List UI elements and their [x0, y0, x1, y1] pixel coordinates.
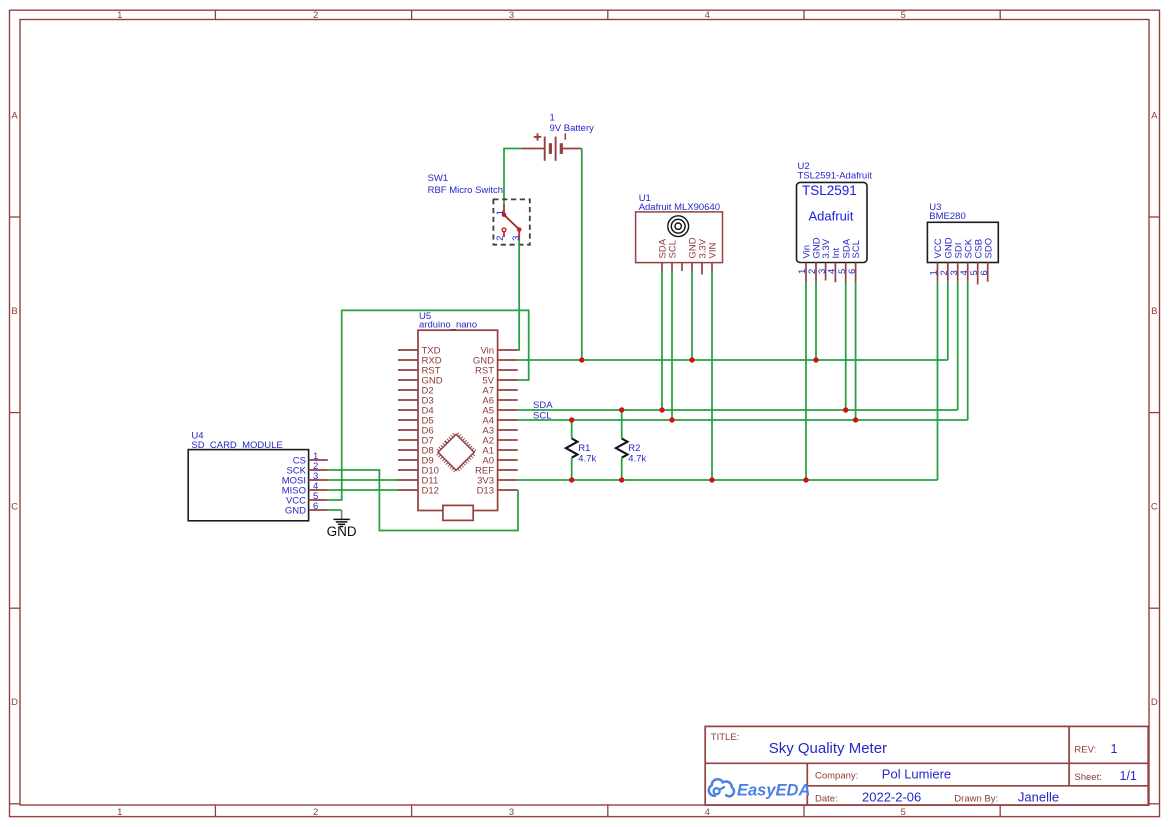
U4 SD_CARD_MODULE label — [191, 430, 282, 451]
U3 pin 2 GND — [939, 237, 954, 281]
U3 BME280 label — [929, 202, 965, 222]
U1 pin SCL — [668, 240, 679, 271]
U3 pin 3 SDI — [949, 243, 964, 282]
U3 pin 6 SDO — [979, 238, 994, 282]
svg-text:1: 1 — [495, 210, 506, 215]
U5 right pin A0 — [482, 456, 517, 467]
U5 left pin RST — [398, 366, 441, 377]
wire U2 SCL — [855, 282, 857, 420]
svg-text:D13: D13 — [477, 486, 494, 497]
U5 right pin D13 — [477, 486, 518, 497]
U2 pin 1 Vin — [797, 245, 812, 282]
wire U1 VIN — [711, 271, 713, 480]
wire U4 GND to ground — [328, 509, 342, 511]
svg-text:SW1: SW1 — [428, 173, 449, 184]
svg-text:RBF Micro Switch: RBF Micro Switch — [428, 185, 503, 196]
U1 pin NC — [681, 263, 683, 271]
title block Company — [815, 766, 951, 781]
U5 arduino_nano label — [419, 311, 477, 331]
svg-text:B: B — [1151, 306, 1157, 317]
ground — [327, 510, 357, 539]
U5 right pin A1 — [482, 446, 517, 457]
U4 SD_CARD_MODULE body — [188, 450, 308, 521]
U2 pin 4 Int — [827, 248, 842, 283]
U5 left pin D6 — [398, 426, 434, 437]
svg-text:Sheet:: Sheet: — [1074, 772, 1101, 783]
battery BT1 symbol — [522, 133, 582, 161]
svg-text:EasyEDA: EasyEDA — [737, 781, 810, 799]
title block TITLE — [711, 732, 887, 757]
U2 text TSL2591 — [802, 183, 857, 198]
U2 pin 6 SCL — [847, 240, 862, 282]
wire 3V3 net horizontal — [518, 479, 938, 481]
wire U3 VCC — [937, 282, 939, 480]
U5 left pin D9 — [398, 456, 434, 467]
U1 body — [636, 212, 723, 263]
wire battery+ to switch — [504, 149, 522, 206]
wire U3 SDI — [957, 282, 959, 410]
svg-text:1: 1 — [1111, 742, 1118, 756]
U5 left pin D12 — [398, 486, 439, 497]
svg-text:SCL: SCL — [668, 240, 679, 258]
U5 left pin D10 — [398, 466, 439, 477]
resistor R1 — [566, 420, 597, 480]
svg-text:B: B — [11, 306, 17, 317]
wire U1 SCL — [671, 271, 673, 420]
switch SW1 label — [428, 173, 503, 196]
svg-text:SCL: SCL — [851, 240, 862, 258]
svg-text:TSL2591: TSL2591 — [802, 183, 857, 198]
U5 left pin D4 — [398, 406, 434, 417]
U4 pin 1 CS — [293, 451, 328, 467]
switch SW1 pin numbers — [495, 210, 522, 241]
wire U3 SCK — [967, 282, 969, 420]
ruler ticks bottom — [215, 805, 1000, 817]
U2 TSL2591-Adafruit label — [798, 161, 873, 181]
wire GND net horizontal — [518, 359, 948, 361]
ruler letters right — [1151, 111, 1158, 709]
svg-text:D: D — [1151, 697, 1158, 708]
svg-text:Drawn By:: Drawn By: — [954, 794, 998, 805]
svg-text:A: A — [11, 111, 18, 122]
svg-text:Date:: Date: — [815, 794, 838, 805]
svg-text:1: 1 — [117, 10, 122, 21]
ruler ticks right — [1149, 217, 1160, 804]
svg-text:Pol Lumiere: Pol Lumiere — [882, 766, 951, 781]
svg-text:4.7k: 4.7k — [628, 454, 646, 465]
title block Sheet — [1074, 769, 1137, 783]
switch SW1 pin 1 — [502, 205, 507, 218]
wire U2 SDA — [845, 282, 847, 410]
svg-text:D: D — [11, 697, 18, 708]
title block REV — [1074, 742, 1117, 756]
wire switch to Vin — [518, 240, 520, 350]
U5 usb connector — [443, 505, 473, 520]
U2 text Adafruit — [809, 209, 854, 224]
svg-text:9V Battery: 9V Battery — [550, 123, 595, 134]
U2 pin 2 GND — [807, 237, 822, 282]
U5 right pin A4 — [482, 416, 517, 427]
wire U2 GND — [815, 282, 817, 360]
svg-text:Janelle: Janelle — [1018, 789, 1059, 804]
svg-text:C: C — [11, 502, 18, 513]
U2 body — [797, 182, 868, 262]
U5 left pin GND — [398, 376, 443, 387]
U4 pin 4 MISO — [282, 481, 328, 497]
switch SW1 lever — [504, 215, 519, 230]
svg-text:Company:: Company: — [815, 771, 858, 782]
svg-text:4: 4 — [705, 807, 710, 818]
svg-text:REV:: REV: — [1074, 745, 1096, 756]
svg-text:D12: D12 — [422, 486, 439, 497]
svg-text:6: 6 — [979, 270, 990, 275]
U5 left pin D11 — [398, 476, 438, 487]
wire battery- to GND net — [581, 149, 583, 361]
switch SW1 pin 3 — [517, 227, 522, 240]
net label SDA — [533, 400, 553, 411]
svg-text:2: 2 — [495, 236, 506, 241]
svg-text:BME280: BME280 — [929, 211, 965, 222]
U5 left pin RXD — [398, 356, 442, 367]
net label SCL — [533, 411, 551, 422]
U1 lens circles — [668, 216, 689, 237]
svg-text:TITLE:: TITLE: — [711, 732, 740, 743]
svg-text:Sky Quality Meter: Sky Quality Meter — [769, 740, 887, 757]
U5 left pin TXD — [398, 346, 441, 357]
U5 right pin A7 — [482, 386, 517, 397]
U5 left pin D7 — [398, 436, 434, 447]
svg-text:arduino_nano: arduino_nano — [419, 320, 477, 331]
wire U4 SCK to D13 — [328, 470, 518, 531]
U3 pin 5 CSB — [969, 239, 984, 285]
resistor R2 — [616, 410, 647, 480]
switch SW1 pin 2 — [502, 228, 506, 237]
wire U1 SDA — [661, 271, 663, 410]
wire U4 MISO to D12 — [328, 489, 398, 491]
svg-text:SDO: SDO — [983, 238, 994, 259]
U5 right pin 3V3 — [477, 476, 518, 487]
U5 left pin D2 — [398, 386, 434, 397]
svg-text:2: 2 — [313, 10, 318, 21]
U5 chip diamond — [438, 434, 474, 470]
U1 pin VIN — [708, 243, 719, 271]
svg-text:4.7k: 4.7k — [578, 454, 596, 465]
U5 right pin REF — [475, 466, 518, 477]
svg-text:SCL: SCL — [533, 411, 551, 422]
ruler ticks left — [10, 217, 21, 804]
svg-text:R2: R2 — [628, 443, 640, 454]
svg-text:Adafruit: Adafruit — [809, 209, 854, 224]
U1 pin 3.3V — [698, 238, 709, 274]
U4 pin 3 MOSI — [282, 471, 328, 487]
junction dots — [569, 357, 858, 482]
svg-text:SDA: SDA — [533, 400, 553, 411]
U5 right pin 5V — [482, 376, 517, 387]
wire U3 GND — [947, 282, 949, 360]
svg-text:6: 6 — [313, 501, 318, 512]
U5 left pin D8 — [398, 446, 434, 457]
U2 pin 3 3.3V — [817, 238, 832, 280]
U5 right pin RST — [475, 366, 518, 377]
wire SCL net horizontal — [518, 419, 968, 421]
EasyEDA logo — [709, 779, 811, 799]
U2 pin 5 SDA — [837, 238, 852, 282]
U3 pin 4 SCK — [959, 238, 974, 281]
U1 Adafruit MLX90640 label — [639, 193, 720, 213]
wire U2 Vin — [805, 282, 807, 480]
svg-text:1: 1 — [117, 807, 122, 818]
svg-text:TSL2591-Adafruit: TSL2591-Adafruit — [798, 171, 873, 182]
U5 right pin A3 — [482, 426, 517, 437]
title block Date — [815, 789, 1059, 804]
svg-text:A: A — [1151, 111, 1158, 122]
wire SDA net horizontal — [518, 409, 958, 411]
U1 pin SDA — [658, 238, 669, 271]
U5 right pin A5 — [482, 406, 517, 417]
svg-text:2022-2-06: 2022-2-06 — [862, 789, 921, 804]
U4 pin 2 SCK — [286, 461, 327, 477]
ruler letters left — [11, 111, 18, 709]
U5 right pin A6 — [482, 396, 517, 407]
svg-text:GND: GND — [327, 524, 357, 539]
svg-text:3: 3 — [511, 236, 522, 241]
U5 left pin D3 — [398, 396, 434, 407]
U5 left pin D5 — [398, 416, 434, 427]
U4 pin 5 VCC — [286, 491, 328, 507]
U5 right pin A2 — [482, 436, 517, 447]
switch SW1 dashed body — [493, 199, 529, 244]
U1 pin GND — [688, 237, 699, 271]
svg-text:3: 3 — [509, 10, 514, 21]
ruler numbers top — [117, 10, 906, 21]
U3 body — [927, 222, 998, 262]
battery BT1 label — [550, 113, 595, 134]
wire U1 GND — [691, 271, 693, 360]
svg-text:5: 5 — [901, 807, 906, 818]
svg-text:4: 4 — [705, 10, 710, 21]
svg-text:3: 3 — [509, 807, 514, 818]
title block frame — [705, 726, 1148, 805]
svg-text:C: C — [1151, 502, 1158, 513]
svg-text:VIN: VIN — [708, 243, 719, 259]
svg-text:R1: R1 — [578, 443, 590, 454]
svg-text:6: 6 — [847, 269, 858, 274]
U5 right pin GND — [473, 356, 518, 367]
U4 pin 6 GND — [285, 501, 328, 517]
svg-text:GND: GND — [285, 506, 306, 517]
svg-text:5: 5 — [901, 10, 906, 21]
U5 right pin Vin — [480, 346, 517, 357]
ruler numbers bottom — [117, 807, 906, 818]
ruler ticks top — [215, 10, 1000, 19]
wire U4 MOSI to D11 — [328, 479, 398, 481]
svg-text:2: 2 — [313, 807, 318, 818]
U5 arduino_nano body — [418, 330, 498, 510]
svg-text:1/1: 1/1 — [1120, 769, 1137, 783]
U3 pin 1 VCC — [929, 238, 944, 281]
wire 5V to U4 VCC — [328, 310, 529, 500]
